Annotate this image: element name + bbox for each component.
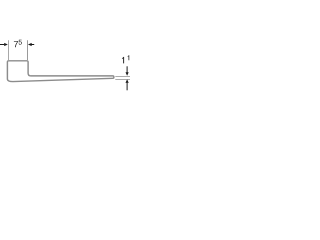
left arrow [0, 44, 4, 46]
right extension lines (bar thickness) [115, 76, 130, 78]
down arrow [126, 66, 128, 72]
left extension line [8, 40, 10, 60]
dimension text 7 (size 9) [14, 41, 18, 47]
right extension line [27, 40, 29, 60]
rail profile outline [7, 61, 114, 82]
dimension text 1 (size 9, helvetica-style no foot) [122, 57, 124, 64]
up arrow [126, 83, 128, 90]
superscript 1 (size 7) [128, 55, 130, 60]
superscript 5 (size 7) [19, 40, 22, 45]
right arrow [31, 44, 34, 46]
technical dimension drawing: towel rail side profile [0, 0, 130, 130]
